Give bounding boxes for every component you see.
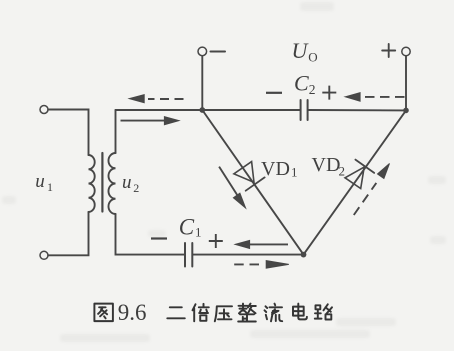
input terminal top-left <box>40 106 48 114</box>
svg-text:9.6: 9.6 <box>118 300 147 325</box>
node junction bottom <box>301 252 307 258</box>
transformer secondary winding <box>108 153 115 214</box>
wire diagonal VD1 branch <box>202 110 303 255</box>
label minus at output <box>211 51 226 53</box>
label minus C1 <box>151 237 167 239</box>
label plus C2 <box>322 86 336 100</box>
svg-text:2: 2 <box>309 82 316 97</box>
output terminal plus <box>402 47 410 55</box>
node junction left <box>199 107 205 113</box>
arrow solid left (bottom) <box>248 243 288 245</box>
capacitor C1 <box>185 243 192 267</box>
caption char 路 <box>315 304 332 319</box>
wire top bus left <box>116 109 300 111</box>
diode VD1 <box>234 162 254 183</box>
capacitor C2 <box>301 100 308 120</box>
svg-text:2: 2 <box>339 164 346 179</box>
arrow dashed right (bottom) <box>234 263 261 265</box>
input terminal bottom-left <box>40 251 48 259</box>
svg-text:VD: VD <box>312 154 341 176</box>
caption char 整 <box>238 304 256 322</box>
transformer primary winding <box>89 155 95 212</box>
caption char 二 <box>167 307 185 318</box>
caption char 压 <box>215 306 232 321</box>
label plus C1 <box>209 234 223 248</box>
svg-text:O: O <box>308 50 317 65</box>
wire output right riser <box>405 56 407 110</box>
diode VD2 <box>345 167 364 188</box>
caption 图 9.6 二倍压整流电路 <box>94 300 332 325</box>
wire bottom bus <box>193 254 303 256</box>
caption char 图 <box>94 304 112 322</box>
svg-text:U: U <box>292 38 310 63</box>
wire output left riser <box>201 56 203 110</box>
output terminal minus <box>198 47 207 56</box>
arrow dashed beside VD2 <box>354 183 377 215</box>
svg-text:VD: VD <box>261 158 290 180</box>
svg-text:u: u <box>35 171 45 192</box>
wire secondary bottom riser <box>116 214 185 255</box>
caption char 倍 <box>193 304 209 322</box>
arrow solid right (top) <box>121 120 168 122</box>
svg-text:1: 1 <box>291 165 298 180</box>
wire primary bottom <box>48 212 88 255</box>
label plus at output <box>382 44 395 57</box>
svg-text:2: 2 <box>133 181 139 195</box>
node junction right <box>403 108 409 114</box>
svg-text:1: 1 <box>47 180 53 194</box>
wire diagonal VD2 branch <box>304 110 407 254</box>
current arrows <box>121 93 405 269</box>
transformer core <box>101 153 103 212</box>
wire primary top <box>48 110 88 156</box>
svg-text:u: u <box>122 172 132 193</box>
arrow solid beside VD1 <box>219 167 238 197</box>
svg-text:C: C <box>294 71 309 96</box>
caption char 电 <box>293 304 307 320</box>
caption char 流 <box>265 304 283 322</box>
wire top bus right <box>308 109 406 111</box>
svg-text:C: C <box>179 214 195 239</box>
svg-text:1: 1 <box>195 225 202 240</box>
wire secondary top riser <box>115 110 117 153</box>
caption text 9.6 <box>118 300 147 325</box>
label minus C2 <box>266 92 282 94</box>
arrow dashed left (top) <box>148 98 184 100</box>
arrow dashed left (C2) <box>363 96 405 98</box>
